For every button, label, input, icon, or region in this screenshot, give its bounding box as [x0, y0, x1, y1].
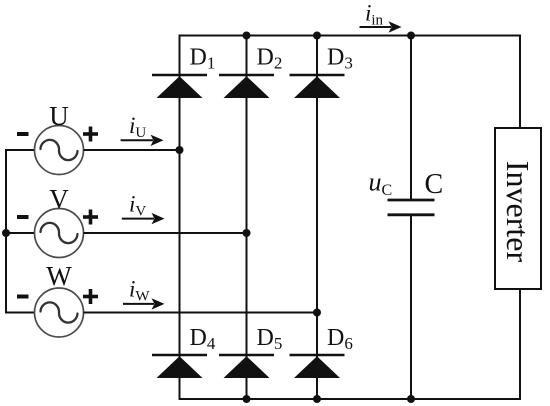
diode D3 — [290, 75, 345, 98]
arrow i_W — [123, 298, 165, 309]
U polarity plus — [83, 127, 98, 142]
diode D1 — [152, 75, 207, 98]
source U (AC) — [35, 126, 84, 175]
svg-text:Inverter: Inverter — [500, 161, 536, 263]
wire: rectifier leg 1 — [179, 35, 181, 401]
arrow i_U — [121, 135, 164, 146]
wire: U phase — [84, 149, 180, 151]
node: left bus / V junction — [2, 229, 10, 237]
node: bottom rail leg3 — [313, 395, 321, 403]
inverter box U1 — [495, 128, 541, 289]
V polarity plus — [83, 210, 98, 225]
arrow i_V — [122, 213, 165, 224]
wire: V minus lead — [5, 232, 35, 234]
node: top rail capacitor — [407, 32, 415, 40]
arrow i_in — [360, 21, 402, 32]
wire: capacitor branch bottom — [410, 215, 412, 399]
wire: rectifier leg 3 — [316, 36, 318, 400]
wire: bottom rail — [180, 398, 521, 400]
source V (AC) — [35, 209, 84, 258]
node: V phase / leg2 junction — [243, 229, 251, 237]
wire: inverter feed (top right) — [519, 35, 521, 130]
diode D2 — [219, 75, 274, 98]
wire: rectifier leg 2 — [246, 36, 248, 400]
node: W phase / leg3 junction — [313, 309, 321, 317]
source W (AC) — [35, 288, 84, 337]
svg-text:U: U — [49, 101, 69, 131]
wire: U minus lead — [5, 149, 35, 151]
diode D6 — [290, 355, 345, 378]
wire: inverter return (bottom right) — [519, 288, 521, 400]
wire: left bus vertical — [5, 150, 7, 313]
diode D5 — [219, 355, 274, 378]
wire: V phase — [84, 232, 247, 234]
wire: top rail — [180, 35, 521, 37]
W polarity minus — [17, 295, 29, 299]
svg-text:C: C — [425, 169, 444, 200]
svg-text:V: V — [49, 184, 69, 214]
wire: W phase — [84, 312, 318, 314]
node: U phase / leg1 junction — [176, 146, 184, 154]
capacitor C — [388, 200, 435, 215]
node: top rail leg3 — [313, 32, 321, 40]
wire: capacitor branch top — [410, 36, 412, 201]
W polarity plus — [83, 289, 98, 304]
node: bottom rail leg2 — [243, 395, 251, 403]
V polarity minus — [17, 215, 29, 219]
svg-text:W: W — [46, 261, 72, 291]
wire: W minus lead — [5, 312, 35, 314]
node: top rail leg2 — [243, 32, 251, 40]
diode D4 — [152, 355, 207, 378]
node: bottom rail capacitor — [407, 395, 415, 403]
U polarity minus — [17, 132, 29, 136]
